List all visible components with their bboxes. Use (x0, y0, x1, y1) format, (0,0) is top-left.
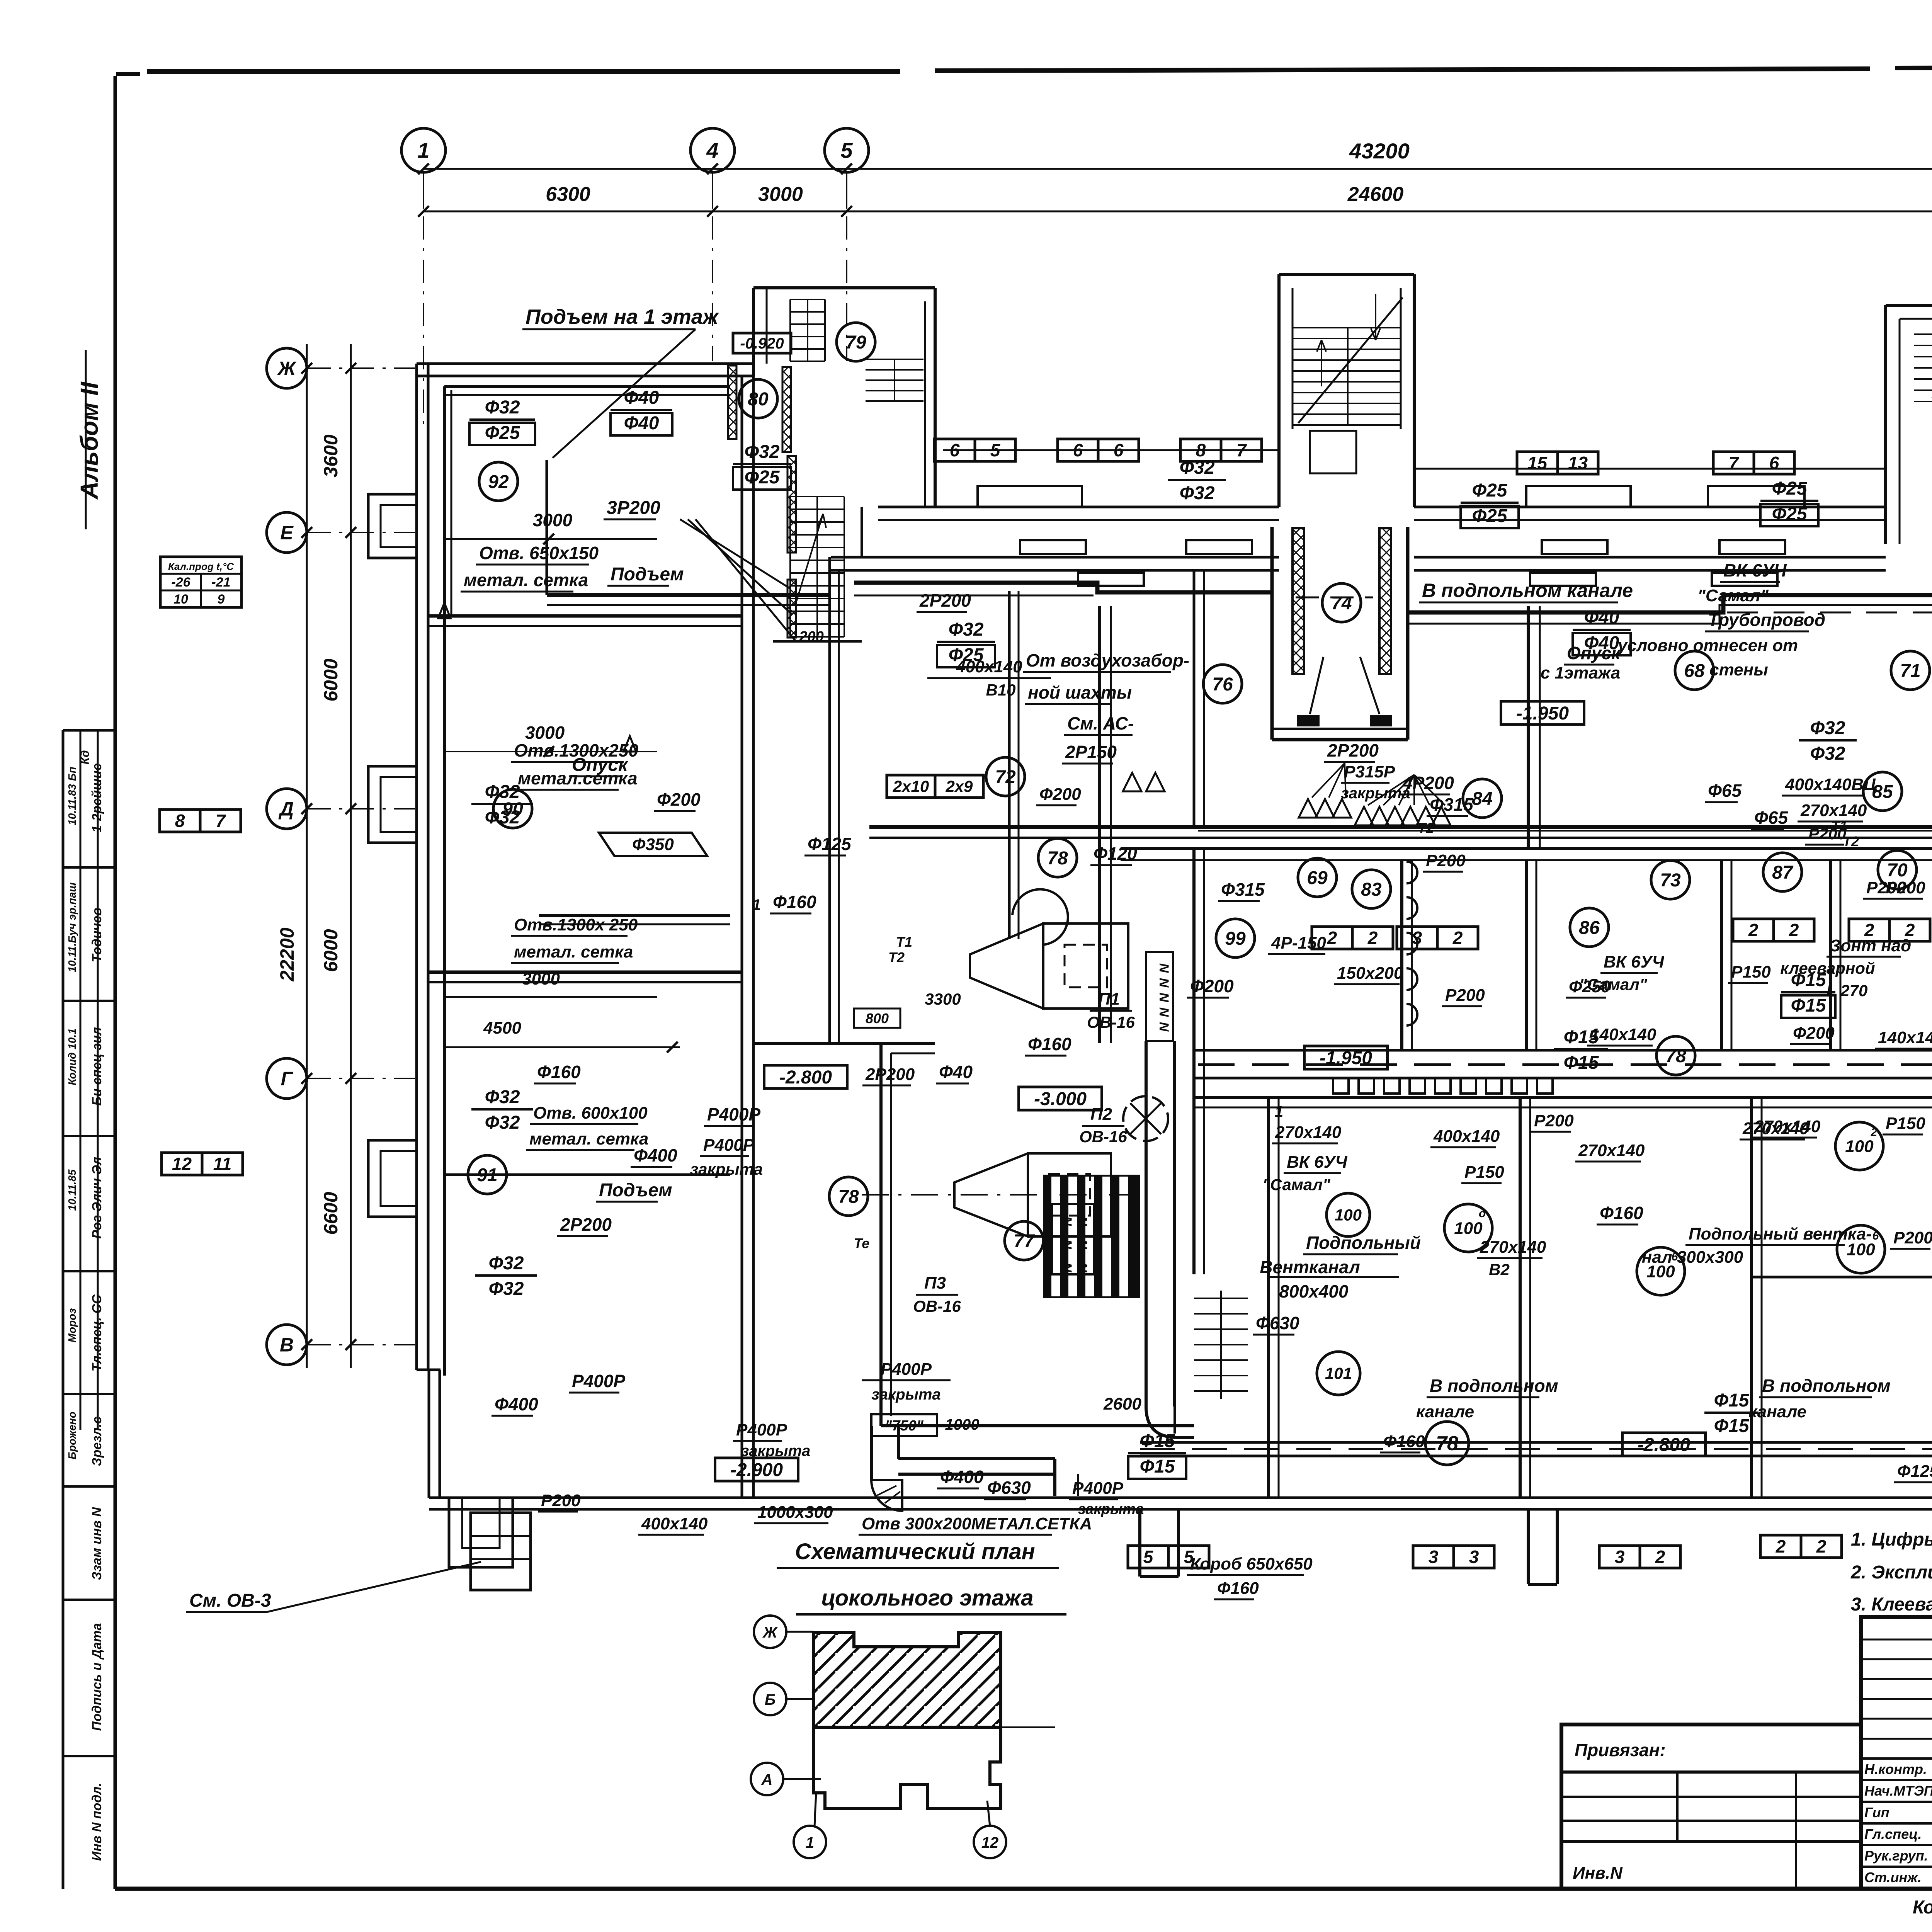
room circle 69 (1298, 858, 1337, 897)
svg-text:7: 7 (216, 811, 226, 831)
svg-text:22200: 22200 (276, 927, 298, 981)
label 270x140 b (1575, 1141, 1645, 1162)
svg-text:Инв N подл.: Инв N подл. (90, 1783, 104, 1861)
label F160 d (1380, 1432, 1425, 1452)
svg-text:L 270: L 270 (1827, 981, 1868, 1000)
stair TL mid treads (866, 359, 923, 401)
label 2R150 (1062, 742, 1117, 764)
svg-text:Р200: Р200 (1534, 1111, 1574, 1130)
label P150 b (1883, 1114, 1925, 1134)
axis circle В (267, 1325, 307, 1365)
axis circle Г (267, 1058, 307, 1099)
stair C treads (1293, 328, 1401, 425)
svg-text:6: 6 (1769, 453, 1779, 473)
room circle 78 (829, 1177, 868, 1216)
label F40/F40 (611, 388, 672, 435)
wing wall (753, 1042, 881, 1045)
stair TL lower treads (790, 497, 844, 637)
axis 1 extension (423, 172, 424, 209)
svg-text:3000: 3000 (758, 183, 803, 206)
room74 duct outline (1272, 527, 1408, 740)
room circle 77 (1005, 1221, 1043, 1260)
svg-text:Подпольный вентка-: Подпольный вентка- (1689, 1225, 1872, 1243)
svg-text:Ф200: Ф200 (1190, 976, 1234, 996)
machine room inner wall (890, 1053, 892, 1416)
svg-text:Ф350: Ф350 (632, 835, 674, 854)
label F32/F25 a (469, 397, 535, 445)
axis circle 4 (690, 128, 735, 172)
label 1000x300 (754, 1503, 833, 1523)
svg-text:6000: 6000 (320, 658, 342, 701)
schematic lead B (786, 1698, 813, 1700)
svg-text:Привязан:: Привязан: (1575, 1740, 1666, 1760)
room circle 70 (1878, 850, 1917, 889)
svg-text:Кд: Кд (79, 750, 92, 765)
label F125 a (804, 834, 852, 855)
svg-text:П3: П3 (924, 1274, 946, 1293)
label box 2|2 (1733, 919, 1814, 941)
label 2R200 c (1324, 740, 1379, 762)
top corridor wall A a (878, 507, 1279, 520)
svg-text:1: 1 (417, 138, 429, 163)
svg-text:N: N (1156, 978, 1171, 988)
svg-text:Ф125: Ф125 (808, 834, 852, 854)
label zont (1827, 936, 1911, 957)
svg-text:Ф65: Ф65 (1754, 808, 1788, 828)
room circle 100a (1444, 1204, 1492, 1252)
svg-text:3300: 3300 (925, 990, 961, 1008)
underfloor channel top (1194, 1049, 1932, 1052)
svg-text:3Р200: 3Р200 (607, 498, 660, 518)
schematic footprint hatched (813, 1633, 1001, 1727)
svg-text:2x9: 2x9 (945, 777, 973, 796)
shaft squiggles 2 (1060, 1216, 1090, 1273)
label F32/F32 b (471, 1087, 533, 1133)
svg-text:нал 300x300: нал 300x300 (1642, 1248, 1743, 1267)
label F160 b (534, 1062, 581, 1083)
label box 8|7 (160, 810, 241, 832)
label P2 OV16 (1079, 1105, 1127, 1146)
svg-text:Ф32: Ф32 (489, 1253, 524, 1274)
svg-text:800x400: 800x400 (1279, 1281, 1348, 1301)
svg-text:"750": "750" (885, 1418, 923, 1434)
label box 3|2 (1397, 927, 1478, 949)
label F65 a (1751, 808, 1788, 829)
svg-text:2. Экспликацию помещений см.: 2. Экспликацию помещений см. лист ОВ-3. (1850, 1562, 1932, 1583)
underfloor channel dash (1198, 1063, 1932, 1066)
svg-text:6: 6 (1872, 1230, 1879, 1242)
svg-text:74: 74 (1331, 593, 1352, 614)
svg-text:68: 68 (1684, 661, 1705, 681)
svg-text:ВК 6УЧ: ВК 6УЧ (1604, 952, 1664, 971)
svg-text:Т2: Т2 (888, 949, 905, 965)
svg-text:Подпольный: Подпольный (1306, 1233, 1421, 1253)
svg-text:А: А (761, 1771, 773, 1788)
underfloor channel bottom (1194, 1077, 1932, 1080)
signature row Гип (1864, 1804, 1932, 1820)
svg-text:92: 92 (488, 472, 509, 492)
wall left-block right (742, 376, 753, 1498)
svg-text:Ф160: Ф160 (1217, 1579, 1259, 1598)
left dim chain line 2 (350, 344, 352, 1368)
svg-text:Ф400: Ф400 (940, 1467, 984, 1487)
label podpolny v (1685, 1225, 1872, 1245)
svg-text:270x140: 270x140 (1480, 1238, 1546, 1257)
label box 6|6 (1058, 439, 1139, 461)
svg-text:Ст.инж.: Ст.инж. (1864, 1869, 1922, 1885)
left wall window bay 2 (368, 766, 417, 843)
svg-text:-1.950: -1.950 (1320, 1048, 1372, 1068)
main top pipe (854, 583, 1932, 612)
machine room walls (881, 1043, 1194, 1426)
room circle 68 (1675, 651, 1714, 690)
svg-text:Ф32: Ф32 (485, 1087, 520, 1107)
svg-text:400x140: 400x140 (956, 657, 1022, 676)
svg-text:5: 5 (840, 138, 853, 163)
svg-text:12: 12 (172, 1154, 192, 1174)
dim 3000 b (444, 969, 657, 997)
label otv650 (476, 543, 599, 565)
label box 2|2 (1312, 927, 1393, 949)
svg-text:Ф40: Ф40 (624, 413, 659, 434)
svg-text:Ф25: Ф25 (1472, 506, 1508, 526)
label box 6|5 (934, 439, 1015, 461)
stair TL upper treads (790, 299, 825, 361)
upper contour line R (1414, 468, 1886, 470)
label R400R d2 (1069, 1479, 1124, 1499)
label v podpolnom kanale (1419, 580, 1633, 602)
label 270x140 t (1798, 801, 1867, 821)
axis circle 1 (401, 128, 446, 172)
svg-text:Ф32: Ф32 (1810, 743, 1845, 764)
sidebar frame (63, 730, 115, 1889)
label F400 b (492, 1394, 538, 1416)
svg-text:24600: 24600 (1347, 183, 1404, 206)
left low stub pipe (444, 1173, 730, 1176)
svg-text:"Самал": "Самал" (1697, 586, 1769, 605)
svg-text:закрыта: закрыта (1341, 785, 1410, 802)
svg-text:Ж: Ж (762, 1624, 778, 1641)
svg-text:ОВ-16: ОВ-16 (1087, 1013, 1135, 1031)
left riser arrow (438, 603, 451, 618)
svg-text:Р200: Р200 (1445, 986, 1485, 1005)
label otv300 (859, 1514, 1092, 1535)
stair TL hatch strip 1 (728, 366, 736, 439)
label 150x200 (1334, 964, 1403, 984)
label F630 b (1253, 1313, 1299, 1335)
svg-text:условно отнесен от: условно отнесен от (1617, 636, 1798, 655)
svg-text:1000: 1000 (945, 1416, 980, 1433)
left small table (160, 557, 241, 607)
partition 76/74 (1194, 570, 1204, 827)
svg-text:Ф630: Ф630 (987, 1478, 1031, 1498)
room circle 84 (1463, 779, 1502, 818)
pipe F65 (1198, 830, 1932, 832)
stair C arrows (1317, 294, 1380, 386)
signature table frame (1861, 1617, 1932, 1889)
wall partition 92/90 b (428, 625, 742, 627)
svg-text:-2.800: -2.800 (1638, 1435, 1690, 1455)
top wall radiator d (1719, 540, 1785, 554)
stair bottom-center treads (1194, 1298, 1248, 1391)
stair TL hatch strip 3 (787, 456, 796, 553)
svg-text:3000: 3000 (533, 510, 573, 530)
schematic axis Zh (754, 1616, 786, 1648)
room circle 100-2 (1835, 1122, 1883, 1170)
svg-text:76: 76 (1212, 674, 1233, 695)
label 270x140 c (1477, 1238, 1546, 1258)
svg-text:Мороз: Мороз (66, 1308, 78, 1343)
left riser arrow 2 (624, 736, 636, 752)
schematic lead A (783, 1778, 821, 1780)
label F40 g (936, 1062, 973, 1083)
axis 5 drop line (846, 216, 847, 361)
label R200 bl (538, 1491, 581, 1512)
svg-text:Р400Р: Р400Р (736, 1420, 787, 1439)
signature row Н.контр. (1864, 1761, 1932, 1777)
svg-text:4: 4 (706, 138, 718, 163)
svg-text:-2.900: -2.900 (730, 1460, 783, 1480)
svg-text:Р200: Р200 (1893, 1228, 1932, 1247)
svg-text:Подъем: Подъем (611, 564, 684, 585)
svg-text:43200: 43200 (1349, 139, 1410, 163)
room circle 78 (1656, 1036, 1695, 1075)
left wall window bay 3 (368, 1140, 417, 1217)
label F160 a (770, 892, 816, 913)
svg-text:10.11.83 Бп: 10.11.83 Бп (66, 767, 78, 825)
axis Г lead (308, 1078, 415, 1079)
svg-text:Т1: Т1 (896, 934, 912, 950)
sidebar album underline (85, 350, 87, 529)
svg-text:Ф32: Ф32 (485, 782, 520, 802)
svg-text:15: 15 (1527, 453, 1548, 473)
label korob (1187, 1554, 1313, 1575)
room circle 92 (479, 462, 518, 501)
stair TL hatch strip 4 (787, 580, 796, 638)
svg-text:N: N (1060, 1240, 1074, 1250)
svg-text:Т1: Т1 (1831, 818, 1847, 834)
svg-text:Отв. 600x100: Отв. 600x100 (533, 1104, 648, 1122)
vertical duct center (1528, 606, 1540, 849)
left porch (449, 1498, 513, 1567)
svg-text:Ф160: Ф160 (773, 892, 816, 912)
partition bottom 2 (1520, 1097, 1530, 1498)
svg-text:-2.800: -2.800 (779, 1067, 832, 1088)
left wall window bay 1 (368, 494, 417, 558)
label 2R200 b (557, 1214, 612, 1236)
svg-text:Н.контр.: Н.контр. (1864, 1761, 1927, 1777)
svg-text:Копировала: Клюев-: Копировала: Клюев- (1913, 1897, 1932, 1918)
svg-text:6: 6 (950, 440, 960, 460)
svg-text:метал. сетка: метал. сетка (514, 942, 633, 961)
label opusk a (569, 755, 629, 776)
svg-text:Ф32: Ф32 (949, 619, 984, 640)
svg-text:10: 10 (173, 592, 188, 607)
svg-text:В2: В2 (1489, 1260, 1510, 1279)
room circle 87 (1763, 853, 1802, 891)
P2 square (1028, 1153, 1111, 1236)
sheet top border (116, 66, 1932, 74)
room circle 101 (1317, 1352, 1360, 1395)
label box 15|13 (1517, 452, 1598, 474)
room circle 83 (1352, 870, 1391, 908)
svg-text:Ф32: Ф32 (1810, 718, 1845, 738)
label F315 a (1218, 879, 1265, 901)
svg-text:"Самал": "Самал" (1579, 975, 1648, 993)
svg-text:Ф200: Ф200 (1039, 785, 1081, 804)
sidebar small texts (66, 767, 78, 1459)
svg-text:78: 78 (838, 1187, 859, 1207)
label podjem 1 etazh (522, 305, 719, 458)
svg-text:4Р-150: 4Р-150 (1271, 934, 1326, 952)
left riser pipe 2 (451, 390, 452, 614)
svg-text:2Р150: 2Р150 (1065, 742, 1117, 762)
room circle 79 (837, 323, 875, 361)
signature row Рук.груп. (1864, 1848, 1932, 1864)
porch left (471, 1513, 531, 1590)
svg-text:с 1этажа: с 1этажа (1541, 663, 1620, 682)
room circle 100c (1637, 1247, 1685, 1295)
svg-text:Р200: Р200 (1886, 878, 1925, 897)
svg-text:270x140: 270x140 (1578, 1141, 1645, 1160)
svg-text:В: В (280, 1334, 294, 1356)
svg-text:150x200: 150x200 (1337, 964, 1403, 983)
top pipe dash channel (1296, 597, 1932, 612)
axis 1 drop line (423, 216, 424, 433)
svg-text:400x140: 400x140 (1433, 1127, 1500, 1146)
svg-text:Г: Г (281, 1068, 294, 1090)
svg-text:Ф15: Ф15 (1140, 1456, 1175, 1477)
svg-text:6: 6 (1073, 440, 1083, 460)
svg-text:Ф40: Ф40 (1584, 607, 1619, 628)
room circle 76 (1203, 665, 1242, 703)
svg-text:цокольного этажа: цокольного этажа (821, 1585, 1033, 1611)
svg-text:800: 800 (866, 1010, 889, 1026)
axis 5 extension (846, 172, 847, 209)
svg-text:Ф65: Ф65 (1708, 781, 1742, 801)
svg-text:1: 1 (806, 1834, 814, 1851)
svg-text:78: 78 (1047, 848, 1068, 869)
svg-text:Схематический план: Схематический план (795, 1539, 1035, 1564)
left riser pipe (443, 386, 446, 1376)
svg-text:Ф400: Ф400 (634, 1145, 677, 1165)
svg-text:N: N (1060, 1263, 1074, 1273)
air outlet triangles c (1355, 807, 1451, 825)
sheet left border (114, 76, 117, 1889)
axis 4 extension (712, 172, 713, 209)
level box -2.800 (1622, 1433, 1706, 1456)
label 800 box (854, 1009, 900, 1028)
svg-text:87: 87 (1772, 862, 1794, 883)
label F400 a (631, 1145, 677, 1167)
svg-text:Р400Р: Р400Р (703, 1136, 755, 1155)
left top pipe pair (444, 386, 730, 395)
label R200 4 (1531, 1111, 1574, 1132)
left block to corridor pipe (547, 460, 830, 605)
label R200 3 (1863, 878, 1906, 899)
label R315R (1341, 762, 1395, 783)
label R400R 3 (862, 1360, 951, 1403)
room circle 99 (1216, 919, 1255, 957)
svg-text:3: 3 (1412, 928, 1422, 948)
svg-text:Ф25: Ф25 (1472, 480, 1508, 501)
label box 2x10|2x9 (887, 775, 983, 798)
svg-text:Кал.прog t,°С: Кал.прog t,°С (168, 561, 234, 572)
label R150 a (1461, 1163, 1504, 1183)
svg-text:Р200: Р200 (1426, 851, 1466, 870)
label 2R200 top (917, 590, 971, 612)
label 4R200 (1400, 773, 1454, 794)
top wall bay a (978, 486, 1082, 507)
label v podp kanale b (1427, 1376, 1558, 1397)
schematic mid line (813, 1726, 1055, 1728)
svg-text:270x140: 270x140 (1275, 1123, 1342, 1142)
leader 3R200 (680, 519, 796, 641)
svg-text:Рог Элич Эл: Рог Элич Эл (90, 1157, 104, 1239)
svg-text:См. АС-: См. АС- (1067, 713, 1134, 733)
svg-text:метал. сетка: метал. сетка (464, 570, 588, 590)
mid rooms top wall b (1121, 859, 1932, 861)
svg-text:Отв 300x200МЕТАЛ.СЕТКА: Отв 300x200МЕТАЛ.СЕТКА (862, 1514, 1092, 1533)
svg-text:10.11.Буч эр.паш: 10.11.Буч эр.паш (66, 882, 78, 972)
label F400 c (937, 1467, 984, 1488)
svg-text:П1: П1 (1098, 990, 1120, 1009)
svg-text:Ф25: Ф25 (1772, 504, 1808, 524)
room circle 78 (1038, 838, 1077, 877)
label 400x140 B10 (927, 657, 1051, 699)
svg-text:2Р200: 2Р200 (865, 1065, 915, 1084)
label F200 a (654, 789, 701, 811)
svg-text:Р150: Р150 (1886, 1114, 1925, 1133)
label VK6UCH a (1720, 560, 1787, 582)
svg-text:Ф630: Ф630 (1256, 1313, 1299, 1333)
sidebar dividers (63, 867, 115, 1756)
svg-text:закрыта: закрыта (741, 1442, 810, 1459)
svg-text:ВК 6УЧ: ВК 6УЧ (1287, 1153, 1347, 1172)
svg-text:6000: 6000 (320, 929, 342, 972)
label otv600 (530, 1104, 648, 1124)
partition bottom 3 (1752, 1097, 1762, 1498)
svg-text:В10: В10 (986, 681, 1015, 699)
svg-text:2: 2 (1816, 1536, 1827, 1556)
svg-text:3: 3 (1429, 1547, 1439, 1567)
svg-text:Ззам инв N: Ззам инв N (90, 1507, 104, 1580)
svg-text:3. Клееварка работает менее: 3. Клееварка работает менее 2 часов в см… (1851, 1594, 1932, 1615)
level box -1.950 (1501, 701, 1584, 724)
svg-text:ВК 6УЧ: ВК 6УЧ (1723, 560, 1787, 580)
shaft squiggles (1156, 963, 1171, 1032)
partition 100 horizontal (1269, 1276, 1399, 1278)
schematic axis 12 (974, 1826, 1006, 1858)
wall left-block left lower (429, 1370, 440, 1498)
svg-text:Ф160: Ф160 (1383, 1432, 1425, 1451)
room74 duct right strip (1379, 528, 1391, 674)
wall top central a (831, 557, 1279, 570)
partition mid 3 (1526, 860, 1536, 1050)
label R200 5 (1883, 878, 1925, 899)
label 750 box (871, 1414, 937, 1436)
label F25/F25 e (1760, 478, 1818, 526)
svg-text:Подъем на 1 этаж: Подъем на 1 этаж (526, 305, 719, 328)
svg-text:Зонт над: Зонт над (1830, 936, 1911, 955)
stair tower C outline (1279, 274, 1414, 507)
signature row Нач.МТЭП (1864, 1783, 1932, 1799)
label metal setka c (511, 942, 633, 963)
svg-text:В подпольном канале: В подпольном канале (1422, 580, 1633, 601)
dim 3000 room92 (444, 510, 657, 544)
room74 duct left strip (1293, 528, 1304, 674)
fan circle (1123, 1096, 1168, 1141)
